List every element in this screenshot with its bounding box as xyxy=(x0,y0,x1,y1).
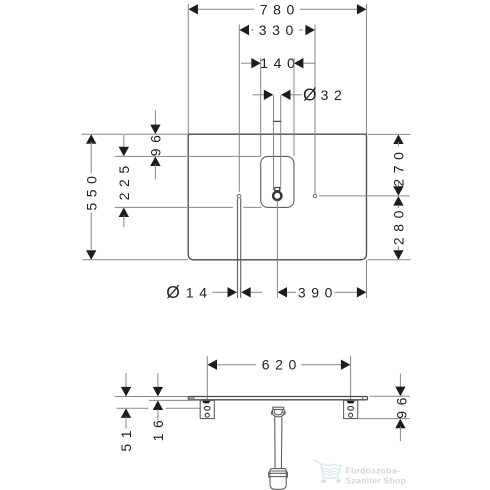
plate top reference line left xyxy=(115,396,189,398)
dim 225 xyxy=(116,135,132,227)
reference line basin bottom xyxy=(115,206,262,208)
dim diameter 32 xyxy=(252,84,347,104)
basin cutout rounded rect xyxy=(261,156,294,207)
reference line basin top xyxy=(115,155,261,157)
svg-text:330: 330 xyxy=(259,22,299,38)
dim 620 xyxy=(208,357,351,373)
svg-text:280: 280 xyxy=(391,205,407,245)
watermark cart icon xyxy=(314,460,341,483)
right wall bracket xyxy=(344,400,358,418)
dim 550 xyxy=(83,134,99,259)
rect right edge extension down xyxy=(366,260,368,298)
svg-text:780: 780 xyxy=(260,1,300,17)
console top-view outline xyxy=(188,134,366,260)
dot extension line up xyxy=(314,25,316,194)
svg-text:390: 390 xyxy=(298,284,338,300)
right reference line bracket bottom xyxy=(359,418,410,420)
console plate front view xyxy=(188,397,367,400)
svg-text:620: 620 xyxy=(262,357,302,373)
siphon nut xyxy=(269,469,288,478)
dim 270 xyxy=(391,135,407,196)
dim 96 right xyxy=(393,374,409,442)
svg-text:96: 96 xyxy=(393,392,409,419)
dim 620 extension lines xyxy=(206,356,208,400)
tap center extension line down xyxy=(276,201,278,299)
siphon flange xyxy=(271,407,285,417)
drain pipe pair lines xyxy=(238,198,241,298)
left reference line top edge xyxy=(81,133,188,135)
dim diameter 14 xyxy=(166,282,262,302)
reference line 16 bottom xyxy=(149,399,200,401)
svg-text:32: 32 xyxy=(321,87,348,103)
svg-text:270: 270 xyxy=(391,147,407,187)
svg-text:51: 51 xyxy=(118,425,134,452)
reference line 51 bottom xyxy=(117,407,200,409)
siphon cup xyxy=(270,477,286,490)
tap hole slot lines xyxy=(273,95,281,190)
dim 780 xyxy=(188,1,366,17)
dim 280 xyxy=(391,196,407,260)
tap hole ring xyxy=(273,188,281,200)
svg-text:225: 225 xyxy=(116,160,132,200)
svg-text:Ø: Ø xyxy=(303,84,317,104)
svg-text:14: 14 xyxy=(186,284,213,300)
svg-text:Fürdőszoba-: Fürdőszoba- xyxy=(346,465,400,475)
left reference line bottom edge xyxy=(82,259,188,261)
drain extension line up xyxy=(238,25,240,192)
dim 51 xyxy=(118,373,134,452)
right reference line bottom xyxy=(368,259,411,261)
siphon pipe xyxy=(275,417,282,469)
svg-text:16: 16 xyxy=(150,415,166,442)
drain hole circle xyxy=(237,194,241,198)
watermark text xyxy=(346,465,407,485)
dim 96 left xyxy=(147,111,163,180)
svg-text:Ø: Ø xyxy=(166,282,180,302)
left wall bracket xyxy=(200,400,214,418)
dim 16 xyxy=(150,373,166,441)
dim 780 extension lines xyxy=(187,4,189,134)
dim 330 xyxy=(240,22,315,38)
dot reference line right xyxy=(319,195,410,197)
svg-text:550: 550 xyxy=(83,171,99,211)
svg-text:96: 96 xyxy=(147,130,163,157)
reference dot right xyxy=(313,194,316,197)
dim 140 xyxy=(241,55,315,156)
dim 390 xyxy=(278,284,367,300)
right reference line top xyxy=(368,133,411,135)
svg-text:Szaniter Shop: Szaniter Shop xyxy=(346,476,407,486)
right reference line plate top xyxy=(370,395,410,397)
